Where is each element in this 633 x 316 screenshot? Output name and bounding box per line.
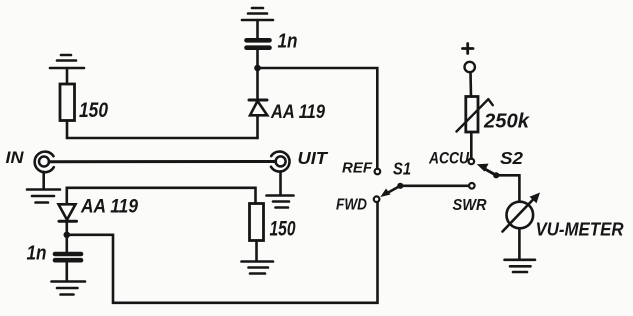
wire node to REF (right then down) bbox=[258, 68, 378, 169]
wire node to D1 bbox=[256, 68, 259, 100]
wire + terminal to pot bbox=[469, 72, 472, 96]
ground (above R1) bbox=[50, 55, 84, 68]
node junction (C1/D1/REF) bbox=[254, 65, 261, 72]
switch S2 arm with arrowhead toward ACCU bbox=[477, 164, 496, 176]
battery + terminal bbox=[463, 44, 475, 73]
connector UIT bbox=[271, 152, 290, 172]
wire UIT to ground bbox=[279, 171, 282, 195]
wire pot to ACCU bbox=[470, 132, 473, 159]
meter M1 VU-METER bbox=[503, 193, 541, 232]
ground (under VU meter) bbox=[505, 260, 536, 272]
connector IN bbox=[35, 152, 54, 173]
wire horizontal (D1 to R1) bbox=[67, 137, 258, 140]
svg-text:AA 119: AA 119 bbox=[270, 102, 325, 123]
node FWD terminal bbox=[374, 196, 380, 202]
resistor R2 150 bbox=[250, 204, 264, 241]
svg-text:250k: 250k bbox=[483, 111, 530, 133]
wire C2 to ground bbox=[66, 263, 69, 282]
svg-text:S1: S1 bbox=[393, 159, 411, 179]
svg-text:1n: 1n bbox=[278, 31, 298, 53]
wire R1 top to ground bbox=[66, 68, 69, 84]
diode D2 AA119 bbox=[59, 204, 77, 221]
node ACCU terminal bbox=[469, 159, 475, 165]
svg-text:ACCU: ACCU bbox=[428, 150, 470, 168]
switch S1 pole bbox=[397, 183, 403, 189]
wire ground to C1 bbox=[256, 20, 259, 38]
resistor R1 150 bbox=[60, 84, 75, 121]
svg-text:1n: 1n bbox=[27, 243, 47, 265]
svg-text:150: 150 bbox=[270, 218, 296, 241]
svg-text:FWD: FWD bbox=[336, 197, 367, 214]
node junction (D2/C2/bottom run) bbox=[64, 232, 71, 239]
svg-text:VU-METER: VU-METER bbox=[536, 220, 624, 240]
svg-text:UIT: UIT bbox=[298, 148, 329, 168]
capacitor C1 bbox=[247, 40, 270, 47]
wire C1 to node bbox=[256, 50, 259, 66]
ground (under IN) bbox=[27, 190, 60, 203]
wire node to C2 bbox=[66, 235, 69, 251]
node REF terminal bbox=[375, 169, 381, 175]
wire R1 bottom bbox=[66, 121, 69, 139]
svg-text:S2: S2 bbox=[500, 148, 523, 168]
ground (under C2) bbox=[52, 282, 86, 295]
wire VU meter to ground bbox=[518, 228, 521, 259]
diode D1 AA119 bbox=[249, 100, 267, 115]
switch S1 arm with arrowhead toward FWD bbox=[380, 186, 400, 197]
svg-text:SWR: SWR bbox=[453, 197, 487, 214]
wire bottom run (node to FWD) bbox=[67, 202, 378, 303]
wire D2 to node bbox=[66, 221, 69, 233]
svg-text:IN: IN bbox=[6, 149, 25, 167]
wire S2 pole to VU meter bbox=[496, 175, 519, 201]
svg-text:150: 150 bbox=[79, 99, 108, 122]
capacitor C2 bbox=[55, 254, 81, 260]
switch S2 pole bbox=[493, 172, 499, 178]
node SWR terminal bbox=[469, 183, 475, 189]
ground (top middle, above C1) bbox=[242, 8, 273, 20]
ground (under UIT) bbox=[267, 196, 294, 208]
wire R2 to ground bbox=[255, 241, 258, 262]
wire lower horizontal (D2 to R2) bbox=[67, 188, 256, 204]
wire IN to ground bbox=[42, 172, 45, 189]
potentiometer P1 250k bbox=[457, 97, 493, 133]
svg-text:AA 119: AA 119 bbox=[80, 197, 138, 218]
wire S1 pole to SWR bbox=[400, 185, 469, 188]
wire IN to UIT bbox=[49, 160, 276, 163]
wire D1 to horizontal run bbox=[256, 115, 259, 138]
svg-text:REF: REF bbox=[342, 161, 373, 177]
ground (under R2) bbox=[242, 262, 274, 274]
